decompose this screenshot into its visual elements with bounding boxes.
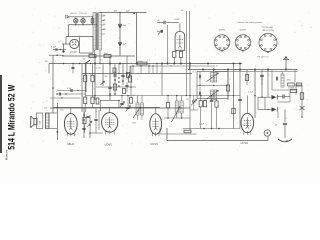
svg-text:1kΩ: 1kΩ [132, 123, 136, 125]
svg-text:2kΩ: 2kΩ [288, 69, 292, 71]
svg-text:12V 0,3: 12V 0,3 [79, 13, 87, 15]
svg-text:Ph.1277 / 2: Ph.1277 / 2 [257, 57, 269, 59]
svg-text:Minerva: Minerva [4, 150, 8, 161]
svg-text:50Ω: 50Ω [104, 53, 108, 55]
svg-text:4μF: 4μF [123, 25, 127, 27]
svg-text:UCH21: UCH21 [241, 142, 250, 145]
svg-text:5kΩ: 5kΩ [60, 110, 64, 112]
svg-text:UCH21: UCH21 [105, 144, 114, 147]
svg-text:Röhren von unten gesehen: Röhren von unten gesehen [237, 21, 263, 24]
svg-text:5k: 5k [113, 72, 115, 74]
svg-text:240: 240 [103, 20, 106, 22]
svg-text:UBL21: UBL21 [67, 143, 75, 146]
svg-text:110: 110 [103, 29, 106, 31]
svg-text:2k: 2k [124, 107, 126, 109]
svg-text:0,1μF: 0,1μF [248, 92, 254, 94]
svg-text:UCH21: UCH21 [219, 30, 226, 32]
svg-text:W: W [170, 66, 172, 68]
svg-text:UY1N: UY1N [70, 51, 77, 54]
svg-text:0,5MΩ: 0,5MΩ [288, 88, 294, 90]
svg-text:Tk: Tk [95, 111, 97, 113]
svg-text:1M: 1M [186, 99, 189, 101]
svg-text:220: 220 [103, 15, 106, 17]
svg-text:UCH21: UCH21 [150, 143, 159, 146]
svg-text:UF41: UF41 [175, 18, 180, 21]
svg-text:6V 0,3: 6V 0,3 [70, 13, 77, 15]
svg-text:25k: 25k [104, 76, 107, 78]
svg-text:4μF: 4μF [123, 43, 127, 45]
svg-text:UBL21 UY1N: UBL21 UY1N [262, 30, 275, 32]
svg-text:0,1μF: 0,1μF [138, 61, 144, 63]
svg-text:1kΩ: 1kΩ [89, 53, 93, 55]
svg-text:UCH21: UCH21 [240, 30, 247, 32]
svg-text:0,1μF: 0,1μF [199, 124, 205, 126]
svg-text:0,1μF: 0,1μF [51, 47, 57, 49]
svg-text:125: 125 [45, 61, 48, 63]
svg-text:0,5M: 0,5M [96, 68, 101, 70]
svg-text:125: 125 [103, 24, 106, 26]
svg-text:514 L Mirando 52 W: 514 L Mirando 52 W [6, 85, 17, 150]
